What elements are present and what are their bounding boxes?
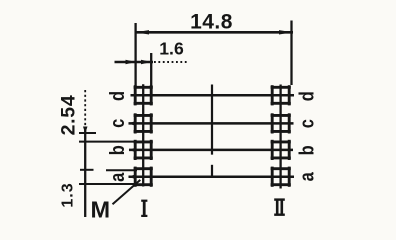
- arrow left 14.8: [136, 30, 150, 34]
- column II centerline: [279, 85, 281, 189]
- svg-text:d: d: [295, 91, 318, 101]
- tick arrow at row b left end: [129, 148, 136, 152]
- left dimension line dotted upper part: [84, 90, 86, 130]
- svg-text:a: a: [295, 171, 318, 181]
- arrow right 14.8: [279, 30, 293, 34]
- arrow at pad left edge: [126, 60, 137, 64]
- pad Id: [134, 85, 153, 105]
- extension line pad a top: [106, 169, 137, 171]
- svg-text:2.54: 2.54: [58, 95, 80, 136]
- svg-text:b: b: [295, 145, 318, 155]
- svg-text:c: c: [295, 119, 318, 128]
- svg-text:a: a: [106, 172, 129, 182]
- wire row c: [129, 122, 294, 125]
- extension line left of 14.8: [134, 23, 136, 88]
- tick at y169.8: [80, 169, 94, 171]
- extension line right of 14.8: [290, 21, 292, 86]
- tick arrow at row a left end: [128, 175, 135, 179]
- center dashed line between columns: [211, 85, 213, 155]
- svg-text:d: d: [106, 91, 129, 101]
- pad Ib: [134, 140, 153, 160]
- svg-text:1.3: 1.3: [60, 182, 77, 207]
- wire row b: [129, 149, 293, 152]
- dimension 14.8 line: [135, 31, 293, 34]
- extension line pad b top: [79, 141, 136, 143]
- pad Ia: [134, 167, 153, 187]
- svg-text:c: c: [106, 119, 129, 128]
- arrow at pad right edge: [141, 60, 152, 64]
- leader from M to pad Ia: [113, 180, 141, 204]
- pad IId: [271, 85, 291, 105]
- dotted tail of 1.6: [154, 61, 189, 63]
- svg-text:14.8: 14.8: [190, 11, 233, 34]
- extension line pad a bottom: [79, 183, 137, 185]
- dimension 1.6 line: [115, 61, 154, 64]
- label I (roman numeral, drawn): [143, 200, 146, 216]
- wire row d: [131, 94, 295, 97]
- left dimension line solid part: [84, 130, 86, 217]
- wire row a: [129, 175, 295, 178]
- tick at y133: [79, 132, 96, 134]
- pad Ic: [134, 113, 153, 133]
- pad IIb: [271, 140, 291, 160]
- tick arrow at row c left end: [128, 121, 135, 125]
- pad IIc: [271, 113, 291, 133]
- extension line right of 1.6: [150, 53, 152, 88]
- svg-text:M: M: [91, 196, 111, 222]
- svg-text:1.6: 1.6: [159, 39, 184, 59]
- label II (roman numeral, drawn): [276, 200, 279, 215]
- pad IIa: [271, 167, 291, 187]
- svg-text:b: b: [106, 145, 129, 155]
- arrow down at pad c bottom: [83, 127, 88, 134]
- column I centerline: [142, 84, 144, 186]
